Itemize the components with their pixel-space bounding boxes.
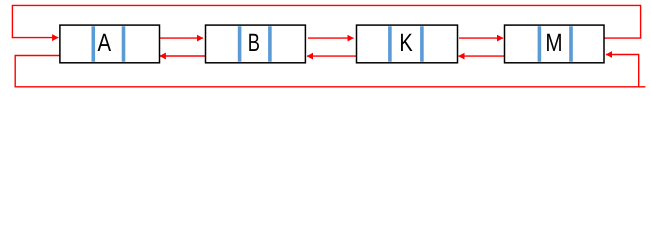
svg-text:B: B (248, 29, 260, 57)
svg-text:K: K (399, 29, 413, 57)
svg-text:M: M (545, 29, 562, 57)
svg-text:A: A (98, 29, 112, 57)
